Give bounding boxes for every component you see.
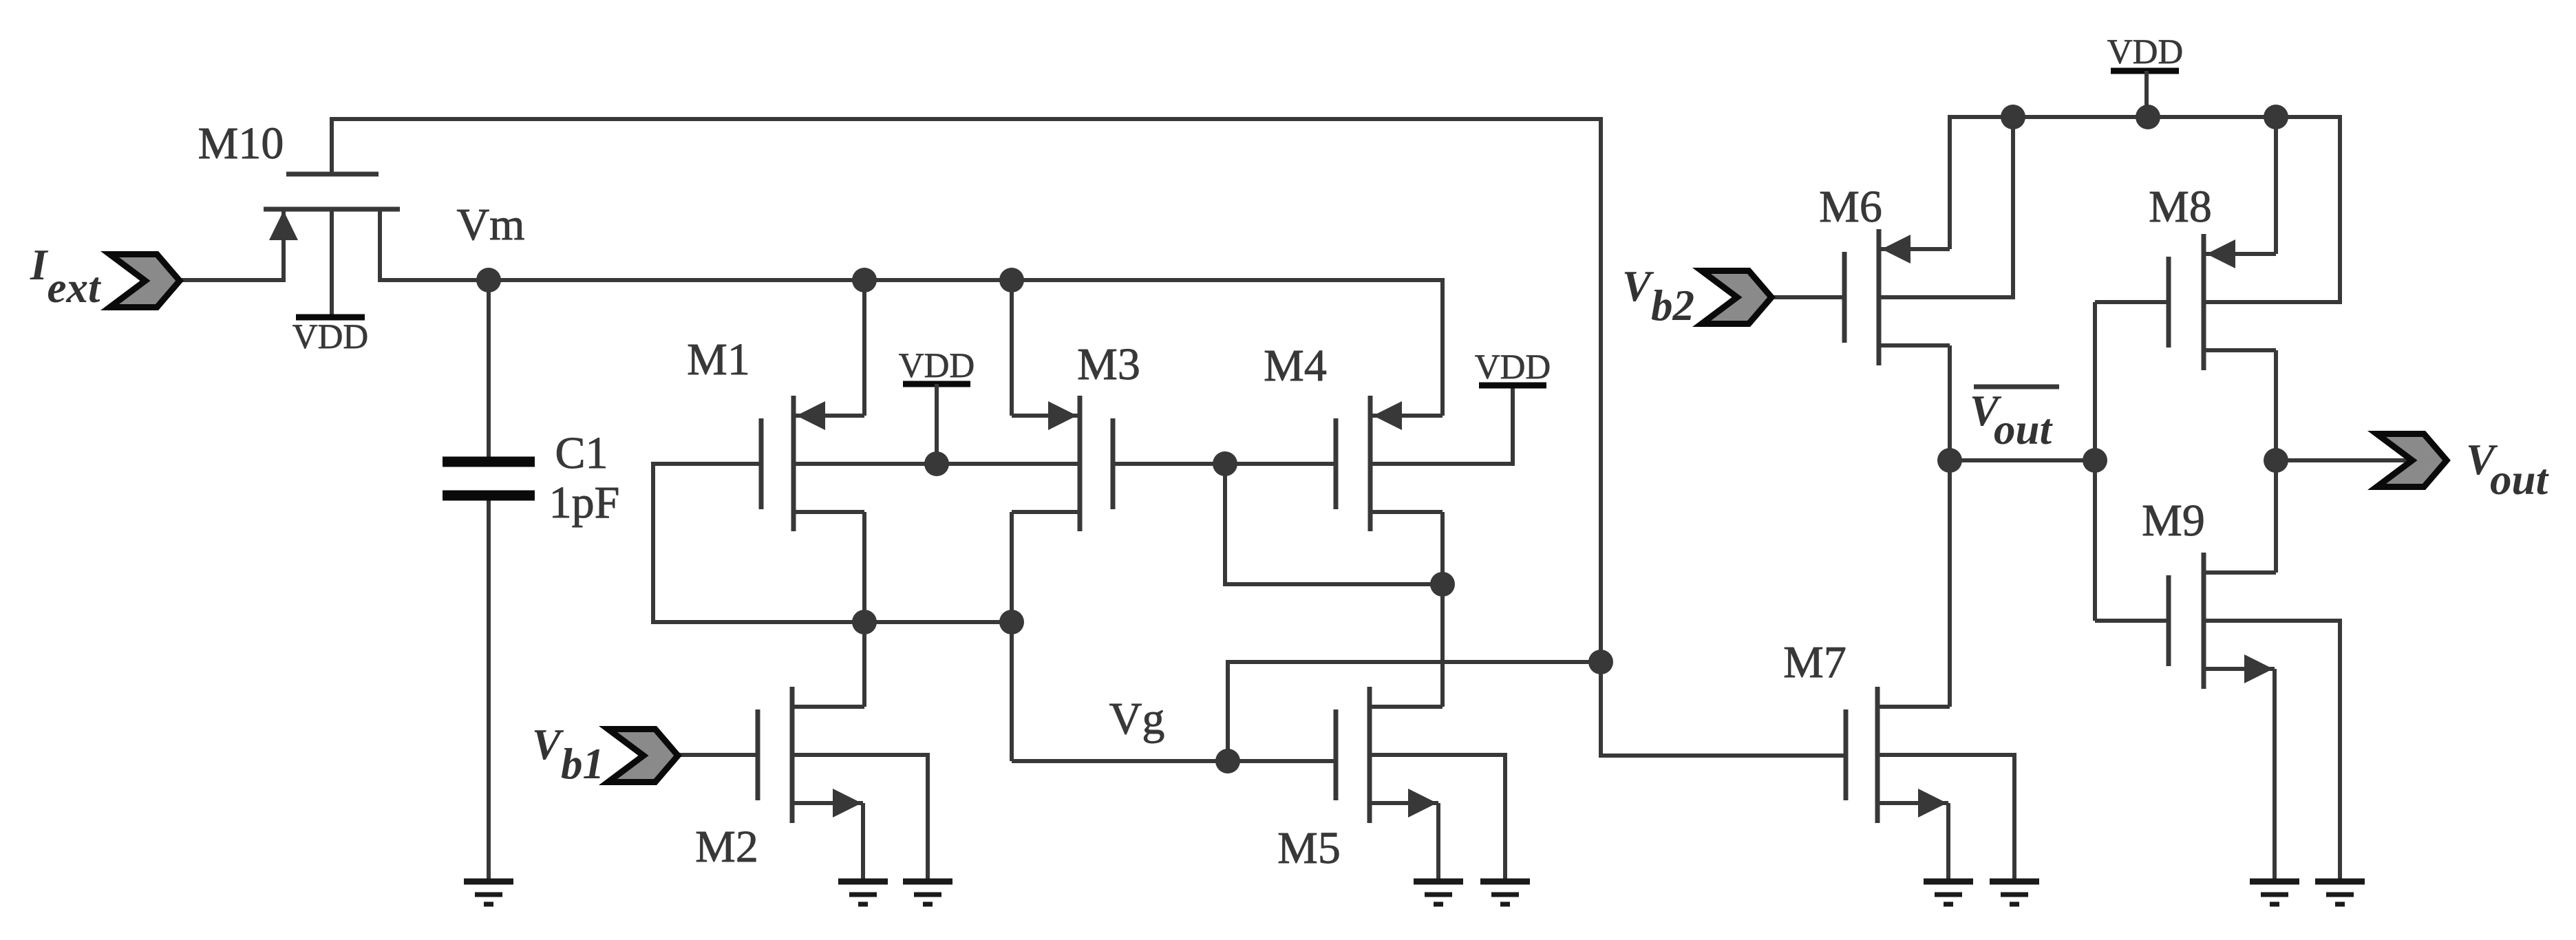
- wire M8 bulk to VDD rail: [2204, 115, 2340, 302]
- wire M6 bulk to VDD rail: [1879, 117, 2013, 297]
- wire Vm rail drop to M4 source: [1440, 278, 1445, 416]
- input port Vb2 arrow: [1702, 271, 1772, 324]
- node Vout at M8/M9 drains: [2264, 448, 2288, 473]
- wire M3/M4 gate drop to M4 drain: [1225, 464, 1443, 584]
- power VDD at M1/M3 bulk: [899, 347, 975, 464]
- wire Iext input to M10 source: [178, 278, 286, 282]
- wire M3 source drop: [1010, 512, 1014, 622]
- node M4 drain junction: [1430, 572, 1455, 597]
- svg-text:Vb2: Vb2: [1622, 262, 1694, 330]
- capacitor C1: [443, 462, 535, 495]
- wire M2 source to ground: [861, 803, 865, 882]
- transistor M3 (PMOS, mirrored): [1012, 396, 1113, 531]
- ground M9 bulk: [2315, 882, 2365, 904]
- transistor M7 (NMOS): [1846, 687, 1950, 823]
- wire Vb2 input to M6 gate: [1769, 295, 1844, 299]
- svg-text:Vm: Vm: [457, 200, 525, 250]
- svg-text:VDD: VDD: [292, 318, 369, 356]
- wire M8/M9 gate column from Vout-bar: [2093, 302, 2097, 621]
- wire node Vout row to output: [2276, 458, 2412, 462]
- power VDD at output stage rail: [2107, 33, 2184, 117]
- ground M2 bulk: [903, 882, 952, 904]
- svg-text:M4: M4: [1264, 341, 1327, 391]
- transistor M2 (NMOS): [758, 687, 864, 823]
- wire M7 source to ground: [1946, 803, 1950, 882]
- node Vout-bar at gate column: [2083, 448, 2107, 473]
- wire M6 drain to M7 drain: [1948, 345, 1952, 707]
- wire M8 drain to M9 drain: [2274, 350, 2278, 573]
- ground C1: [464, 882, 513, 904]
- wire M5 source to ground: [1436, 803, 1440, 882]
- power VDD at M4 bulk: [1475, 348, 1551, 387]
- wire Vm node to C1 top plate: [487, 280, 491, 460]
- wire M7 gate stub: [1601, 754, 1846, 758]
- wire M1 drain riser: [862, 278, 866, 416]
- svg-text:VDD: VDD: [899, 347, 975, 385]
- wire M5 bulk to ground: [1370, 755, 1505, 882]
- node M3/M4 gate junction: [1213, 451, 1237, 476]
- wire M3 gate to M4 gate: [1113, 462, 1336, 466]
- svg-text:C1: C1: [555, 428, 608, 478]
- transistor M6 (PMOS): [1844, 229, 1950, 365]
- svg-text:Iext: Iext: [30, 241, 102, 312]
- wire M1/M2/M3 common node row: [651, 620, 1012, 624]
- svg-text:VDD: VDD: [1475, 348, 1551, 387]
- wire M9 gate lead: [2095, 619, 2169, 623]
- wire M3 drain riser: [1010, 278, 1014, 416]
- label Vout-bar: [1970, 387, 2059, 453]
- wire M1 gate loop: [653, 464, 761, 622]
- transistor M8 (PMOS): [2169, 234, 2276, 370]
- svg-text:M7: M7: [1783, 637, 1846, 687]
- svg-text:M5: M5: [1277, 823, 1341, 873]
- ground M9 source: [2250, 882, 2299, 904]
- ground M5 bulk: [1480, 882, 1530, 904]
- wire node VDD rail right: [1948, 115, 2340, 119]
- transistor M5 (NMOS): [1336, 687, 1443, 823]
- node VDD rail at supply: [2136, 105, 2160, 129]
- wire M10 gate lead: [330, 117, 334, 174]
- node Vg riser joint: [1588, 650, 1613, 674]
- wire node Vout-bar row: [1950, 458, 2095, 462]
- svg-text:Vout: Vout: [2466, 436, 2550, 504]
- wire M9 bulk to ground: [2204, 621, 2340, 882]
- transistor M4 (PMOS): [1336, 396, 1443, 531]
- wire top rail (M10 gate to Vg riser): [330, 117, 1603, 121]
- ground M7 source: [1924, 882, 1973, 904]
- svg-text:VDD: VDD: [2107, 33, 2184, 72]
- ground M5 source: [1414, 882, 1463, 904]
- wire node Vg row: [1012, 759, 1336, 763]
- transistor M10 (PMOS, horizontal): [264, 174, 400, 315]
- node Vg: [1215, 749, 1240, 773]
- ground M7 bulk: [1990, 882, 2039, 904]
- wire M2 bulk to ground: [792, 755, 928, 882]
- wire M6 source to VDD rail: [1948, 115, 1952, 249]
- svg-text:M10: M10: [198, 118, 284, 169]
- node M3 source junction: [999, 610, 1024, 634]
- node Vm at M3 drain: [999, 268, 1024, 292]
- svg-text:Vout: Vout: [1970, 387, 2054, 453]
- transistor M9 (NMOS): [2169, 553, 2276, 689]
- ground M2 source: [838, 882, 888, 904]
- wire main riser (top rail down to M7 gate wire): [1601, 117, 1846, 756]
- svg-text:M9: M9: [2142, 495, 2205, 546]
- node M1 source junction: [852, 610, 877, 634]
- svg-text:M3: M3: [1077, 339, 1140, 389]
- node VDD tap M1/M3 bulk: [924, 451, 949, 476]
- wire M8 gate lead: [2095, 300, 2169, 304]
- wire M4 bulk to VDD: [1370, 385, 1513, 464]
- svg-text:M2: M2: [695, 822, 758, 872]
- node Vout-bar at M6/M7 drains: [1937, 448, 1962, 473]
- wire M1 source to M2 drain: [862, 512, 866, 707]
- node VDD rail at M6 bulk: [2001, 105, 2025, 129]
- svg-text:M6: M6: [1819, 182, 1882, 232]
- wire M7 bulk to ground: [1877, 755, 2014, 882]
- wire C1 bottom plate to ground: [487, 498, 491, 882]
- input port Iext arrow: [110, 255, 180, 308]
- wire Vg riser to rail joint: [1228, 662, 1603, 761]
- svg-text:M8: M8: [2149, 182, 2212, 232]
- wire M9 source to ground: [2272, 669, 2277, 882]
- node VDD rail at M8 source: [2264, 105, 2288, 129]
- wire M8 source to VDD rail: [2274, 115, 2278, 254]
- node Vm at M1 drain: [852, 268, 877, 292]
- input port Vb1 arrow: [608, 729, 679, 782]
- wire node Vm rail: [378, 278, 1443, 282]
- transistor M1 (PMOS): [761, 396, 864, 531]
- wire M4 drain to M5 drain: [1440, 512, 1445, 707]
- svg-text:M1: M1: [687, 334, 750, 385]
- svg-text:Vb1: Vb1: [532, 720, 604, 788]
- power VDD at M10 bulk: [292, 317, 369, 356]
- node Vm at C1: [476, 268, 501, 292]
- output port Vout arrow: [2377, 434, 2447, 487]
- svg-text:1pF: 1pF: [549, 478, 620, 528]
- wire node row down to Vg row: [1010, 622, 1014, 761]
- wire M1-M3 bulk to VDD: [794, 462, 1080, 466]
- wire Vb1 input to M2 gate: [676, 753, 758, 757]
- svg-text:Vg: Vg: [1109, 694, 1165, 744]
